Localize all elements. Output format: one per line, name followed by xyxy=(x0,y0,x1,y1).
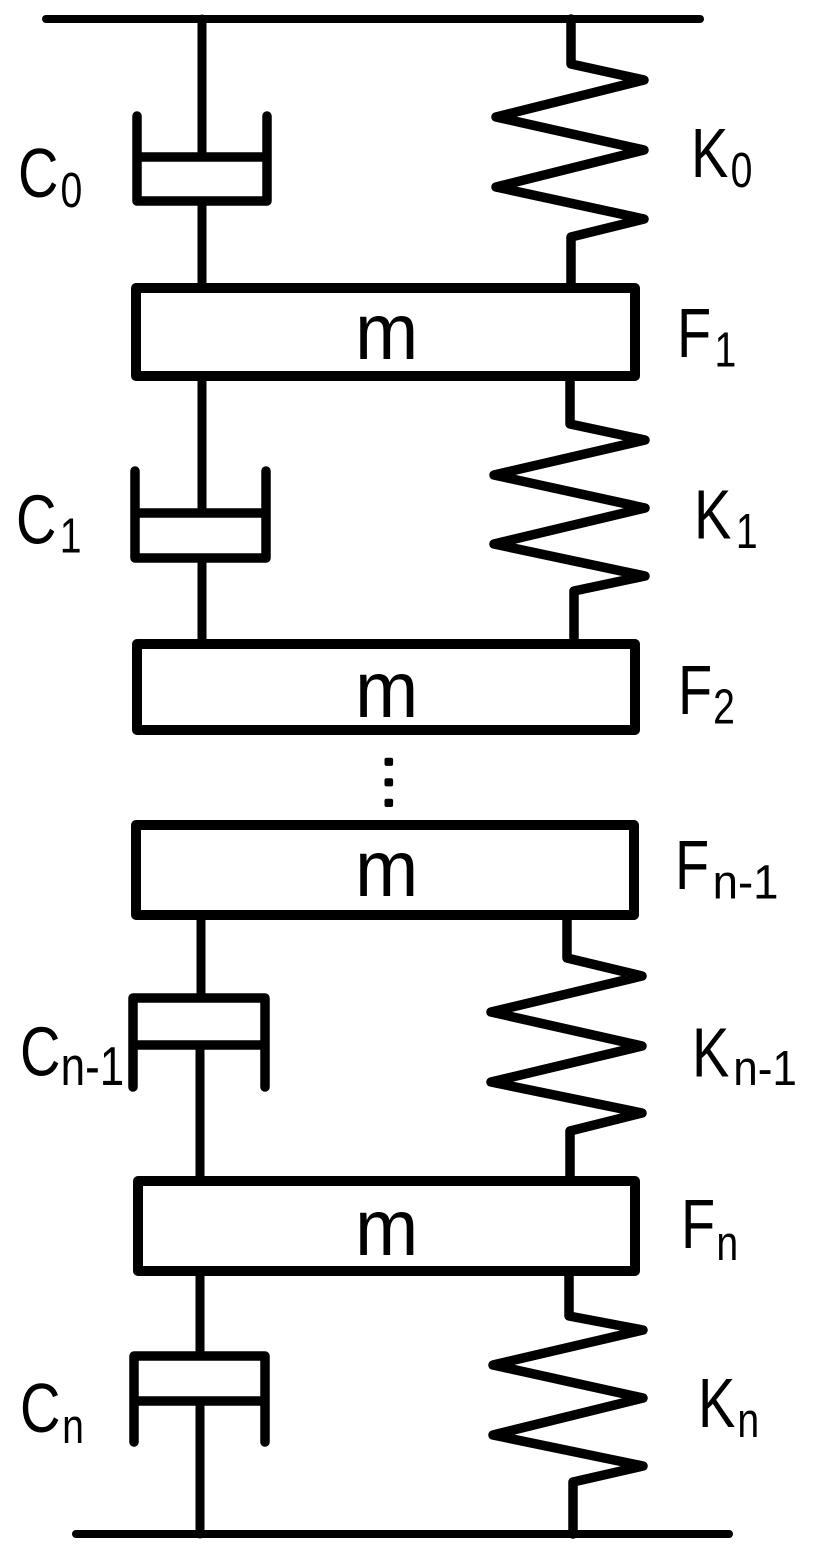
svg-text:n-1: n-1 xyxy=(713,855,779,908)
svg-text:K: K xyxy=(692,1014,729,1091)
svg-text:m: m xyxy=(355,823,418,913)
svg-text:m: m xyxy=(355,644,418,734)
svg-text:n-1: n-1 xyxy=(61,1035,125,1097)
svg-text:n-1: n-1 xyxy=(733,1041,797,1096)
svg-text:F: F xyxy=(675,827,709,904)
svg-text:m: m xyxy=(355,286,418,376)
svg-text:m: m xyxy=(355,1182,418,1272)
svg-text:C: C xyxy=(20,1014,60,1091)
